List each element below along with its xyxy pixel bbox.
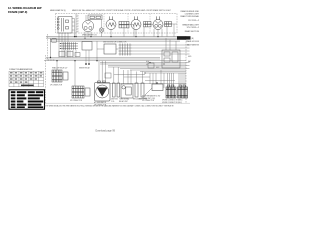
right label: 12V21/5W [186,27,199,29]
resistor unit [135,83,138,97]
dashed boundary right [185,36,187,103]
label: wire tick c [156,67,160,69]
wire: switch outputs [72,19,75,37]
component: mid small box [148,63,154,68]
connector block CN1 [52,70,68,82]
dashed separator b [127,14,129,34]
note line [44,105,174,108]
table: component legend [9,71,44,87]
label: rectifier [139,99,148,101]
svg-text:LICENSE LIGHT: LICENSE LIGHT [185,13,200,15]
connector: tail lamp plug [165,22,172,27]
junction dots [56,36,164,84]
right label: brake/tail [183,23,200,26]
wire: gauge terminals [85,15,91,37]
top label: long headlight/turn-signal label [72,9,171,12]
wire: cluster feed verticals [166,38,176,50]
tail lamp L3 [153,16,163,29]
title line 1 [8,6,42,10]
label: resistor [133,98,143,101]
headlight L1 [106,16,116,29]
component: inline connector tag [52,39,57,42]
label: flasher 2 [119,100,128,103]
right label: 12V21W [188,20,199,22]
indicator lamp L0 [99,28,103,32]
label: table title [9,68,32,71]
wire: turn signal drop [135,30,137,37]
right label: turn signal R [180,15,199,18]
dashed separator c [149,14,151,34]
label: generator 2 [94,104,107,106]
wire: coil link b [124,76,150,78]
generator G1 [95,81,111,101]
switch assembly SW1 [57,17,72,34]
label: battery 2 [162,102,182,104]
right label: rear brake light [181,10,200,13]
dashed enclosure: lamp group [78,14,177,34]
wire: lamp L0 drop [101,32,103,36]
label: relay 2 [142,97,155,100]
wire: ladder drops [64,50,89,63]
label: relay 3 [142,100,155,102]
label: right edge notes [188,56,192,58]
wire: secondary bus [44,58,186,61]
wire: left feeder [50,38,52,57]
ignition switch SW2 [104,44,116,54]
connector block CN4 [178,85,188,98]
label: ignition switch [103,42,127,44]
component: left small box B [67,52,73,57]
component: left small box A [59,52,65,57]
connector: ignition ladder [119,44,133,56]
turn signal lamp L2 [131,16,141,29]
black tag: frame ground [177,36,191,39]
rectifier unit [141,83,144,97]
node: ladder pins [60,43,61,49]
label: CN1 top note [52,67,67,70]
wire: lamp L0 up [101,20,103,28]
wire: main trunk bus [46,37,186,42]
right label: license light [185,13,200,15]
dashed separator a [103,14,105,34]
ignition coil pair 1 [113,83,120,97]
meter gauge M1 [82,20,93,31]
wire: coil link a [114,74,145,76]
wire: lamp feeds [124,24,177,37]
svg-text:12V 21/5W x 2: 12V 21/5W x 2 [186,27,199,29]
connector: turn signal plug [144,22,152,27]
footer page number [96,130,116,132]
color code rows [11,91,43,108]
label: tag suffix [192,38,195,40]
label: wire tick a [146,61,150,63]
label: flasher [119,98,129,101]
connector: mid-left ladder [60,42,78,50]
starter relay K1 [152,84,163,91]
connector block CN3 [166,85,176,98]
label: generator [94,101,107,104]
dashed enclosure: handlebar switch unit [56,14,78,34]
wire: tail lamp drop [157,30,159,37]
switch cluster right [162,50,180,68]
label: coil 1b [111,101,115,103]
connector: headlight plug [119,22,129,28]
wire: headlight plug leads [129,24,134,26]
dashed boundary left [45,55,47,103]
node: feeder junction [50,57,51,58]
title line 2 [8,10,27,14]
component: left small box C [75,53,80,57]
label: right edge note A [186,40,200,43]
label: left boxes [79,66,90,69]
svg-text:12V 21W x 2: 12V 21W x 2 [188,20,199,22]
wire: lower collector bus [97,83,186,85]
svg-text:Download page 99: Download page 99 [96,130,116,132]
wire: headlight drop [110,30,112,37]
label: relay [142,94,161,97]
wire: ignition outputs [97,41,186,61]
wire: right distribution band [100,63,186,74]
bottom frame line [44,102,190,104]
label: coil 1 [111,99,118,101]
table cell smudges [10,72,42,86]
wire: right edge stubs [186,45,190,69]
label: gauge [82,35,97,37]
flasher relay unit [121,84,133,98]
label: CN1 [50,84,63,86]
label: wire tick b [146,64,148,66]
wire: left box verticals [59,14,76,58]
wire: relay diagonal lead [145,88,152,95]
label: right edge note B [187,44,199,47]
top label: handlebar switch [50,9,66,12]
label: right edge notes 2 [188,60,191,63]
fuse box F1 [88,15,102,20]
table: wire color code [9,90,45,109]
component: inline unit [105,73,111,78]
right label: rear section [185,30,200,33]
connector block CN2 [72,86,90,98]
wire: lower collector bus 2 [145,80,175,82]
component: junction box [82,42,92,51]
dashed boundary: lower left corner [48,34,56,60]
label: battery [162,100,183,102]
label: CN2 [70,100,83,102]
wire: drops to bottom components [57,61,185,88]
